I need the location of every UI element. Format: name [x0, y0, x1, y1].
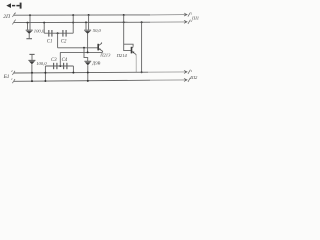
wire C3C4 branch — [45, 65, 73, 67]
svg-text:С2: С2 — [61, 40, 67, 45]
svg-text:2П: 2П — [3, 14, 11, 20]
wire C3C4 right leg to rail1 — [72, 66, 74, 73]
node: C1C2 center tap — [57, 32, 59, 34]
node: riser right of C1C2 on line1 — [72, 14, 74, 16]
wire line1 (top rail) — [14, 14, 150, 16]
wire B (emitter wire y52.4) — [60, 51, 102, 53]
node: C7 on rail2 — [31, 80, 33, 82]
capacitor C6 electrolytic — [84, 30, 91, 52]
svg-text:Ш2: Ш2 — [189, 75, 198, 80]
arrow line2 right — [184, 20, 187, 23]
node: line1 to C6 — [88, 14, 90, 16]
contact slash rail2 left — [12, 79, 15, 83]
node: right drop to rail1 — [141, 71, 143, 73]
capacitor C1 — [49, 30, 52, 37]
capacitor C6 leads — [86, 15, 89, 30]
svg-text:С3: С3 — [51, 58, 57, 63]
wire line2 (second rail) — [14, 21, 150, 23]
node: line1 to Q2 drop — [123, 14, 125, 16]
svg-text:1: 1 — [191, 69, 193, 73]
contact slash rail2 right — [188, 78, 191, 82]
node: D1 lead on rail2 — [87, 80, 89, 82]
node: line2 to C5 — [27, 22, 29, 24]
svg-text:100,0: 100,0 — [34, 28, 45, 34]
wire riser right of C1C2 — [72, 15, 74, 33]
transistor Q2 base bar — [131, 47, 133, 54]
capacitor C7 (bottom left electrolytic) top tick — [29, 53, 34, 55]
svg-text:2: 2 — [191, 19, 193, 23]
node: C6 lead joins wire B — [87, 51, 89, 53]
wire Q2 emitter down to rail1 (light) — [135, 55, 137, 73]
transistor Q1 collector — [99, 42, 102, 45]
arrow line1 right — [184, 13, 187, 16]
wire C3C4 left leg down to rail2 — [44, 66, 46, 81]
capacitor C7 plate and body — [28, 60, 35, 81]
contact slash line2 right — [188, 20, 191, 24]
arrow rail2 right — [184, 78, 187, 81]
contact slash line2 left — [12, 20, 15, 24]
transistor Q2 collector diag — [132, 47, 133, 48]
node: left leg on rail1 — [44, 72, 46, 74]
svg-text:С4: С4 — [62, 58, 68, 63]
capacitor C3 — [54, 63, 57, 69]
node: C7 on rail1 — [31, 72, 33, 74]
node: line2 to right drop — [141, 21, 143, 23]
svg-text:1: 1 — [15, 11, 17, 15]
wire C1C2 branch — [44, 32, 73, 34]
wire tap down to mid wire A — [57, 33, 59, 48]
capacitor C4 — [64, 63, 67, 69]
wire rail2 (bottom) — [14, 80, 150, 81]
wire riser left of C1C2 — [43, 23, 45, 34]
svg-text:Б1: Б1 — [3, 74, 10, 80]
wire drop from line1 to Q2 base — [124, 15, 131, 51]
svg-text:С1: С1 — [47, 40, 53, 45]
svg-text:1: 1 — [11, 77, 13, 81]
svg-text:50,0: 50,0 — [93, 28, 102, 34]
arrow rail1 right — [184, 70, 187, 73]
svg-text:П214: П214 — [116, 53, 128, 58]
direction arrow (top-left) — [6, 3, 20, 9]
svg-text:2: 2 — [11, 69, 13, 73]
contact slash rail1 right — [188, 70, 191, 74]
node: D1 lead on rail1 — [87, 72, 89, 74]
node: line2 to C1C2 branch — [43, 22, 45, 24]
node: C3C4 center tap — [59, 65, 61, 67]
wire step down to diode D1 — [84, 48, 88, 61]
wire tap up to wire B — [59, 52, 61, 66]
node: line2 crossing Q2 drop — [123, 21, 125, 23]
contact slash line1 left — [12, 13, 15, 17]
transistor Q2 emitter with arrow — [132, 52, 136, 56]
capacitor C5 electrolytic 100,0 — [26, 30, 33, 39]
contact slash rail1 left — [12, 71, 15, 75]
node: right leg on rail1 — [72, 72, 74, 74]
capacitor C5 leads — [28, 15, 31, 30]
node: wire A to diode step — [83, 47, 85, 49]
wire rail1 (bottom) — [14, 71, 148, 74]
node: line1 to C5 — [29, 14, 31, 16]
wire A (base wire y47.8) — [58, 47, 98, 49]
transistor Q1 emitter with arrow — [99, 49, 103, 53]
svg-text:1: 1 — [15, 18, 17, 22]
contact slash line1 right — [188, 12, 191, 16]
node: line2 to C6 — [85, 21, 87, 23]
node: left leg on rail2 — [44, 80, 46, 82]
svg-text:Д9В: Д9В — [91, 61, 100, 66]
capacitor C7 stub — [31, 55, 33, 60]
wire right drop line2 to rail1 — [141, 22, 143, 72]
node: riser right of C1C2 on line2 — [72, 22, 74, 24]
svg-text:П213: П213 — [99, 53, 111, 58]
capacitor C2 — [63, 30, 66, 37]
diode D1 (bottom, cap style symbol) — [84, 61, 91, 81]
wire Q2 collector loop — [124, 44, 133, 47]
transistor Q1 base bar — [97, 44, 99, 51]
